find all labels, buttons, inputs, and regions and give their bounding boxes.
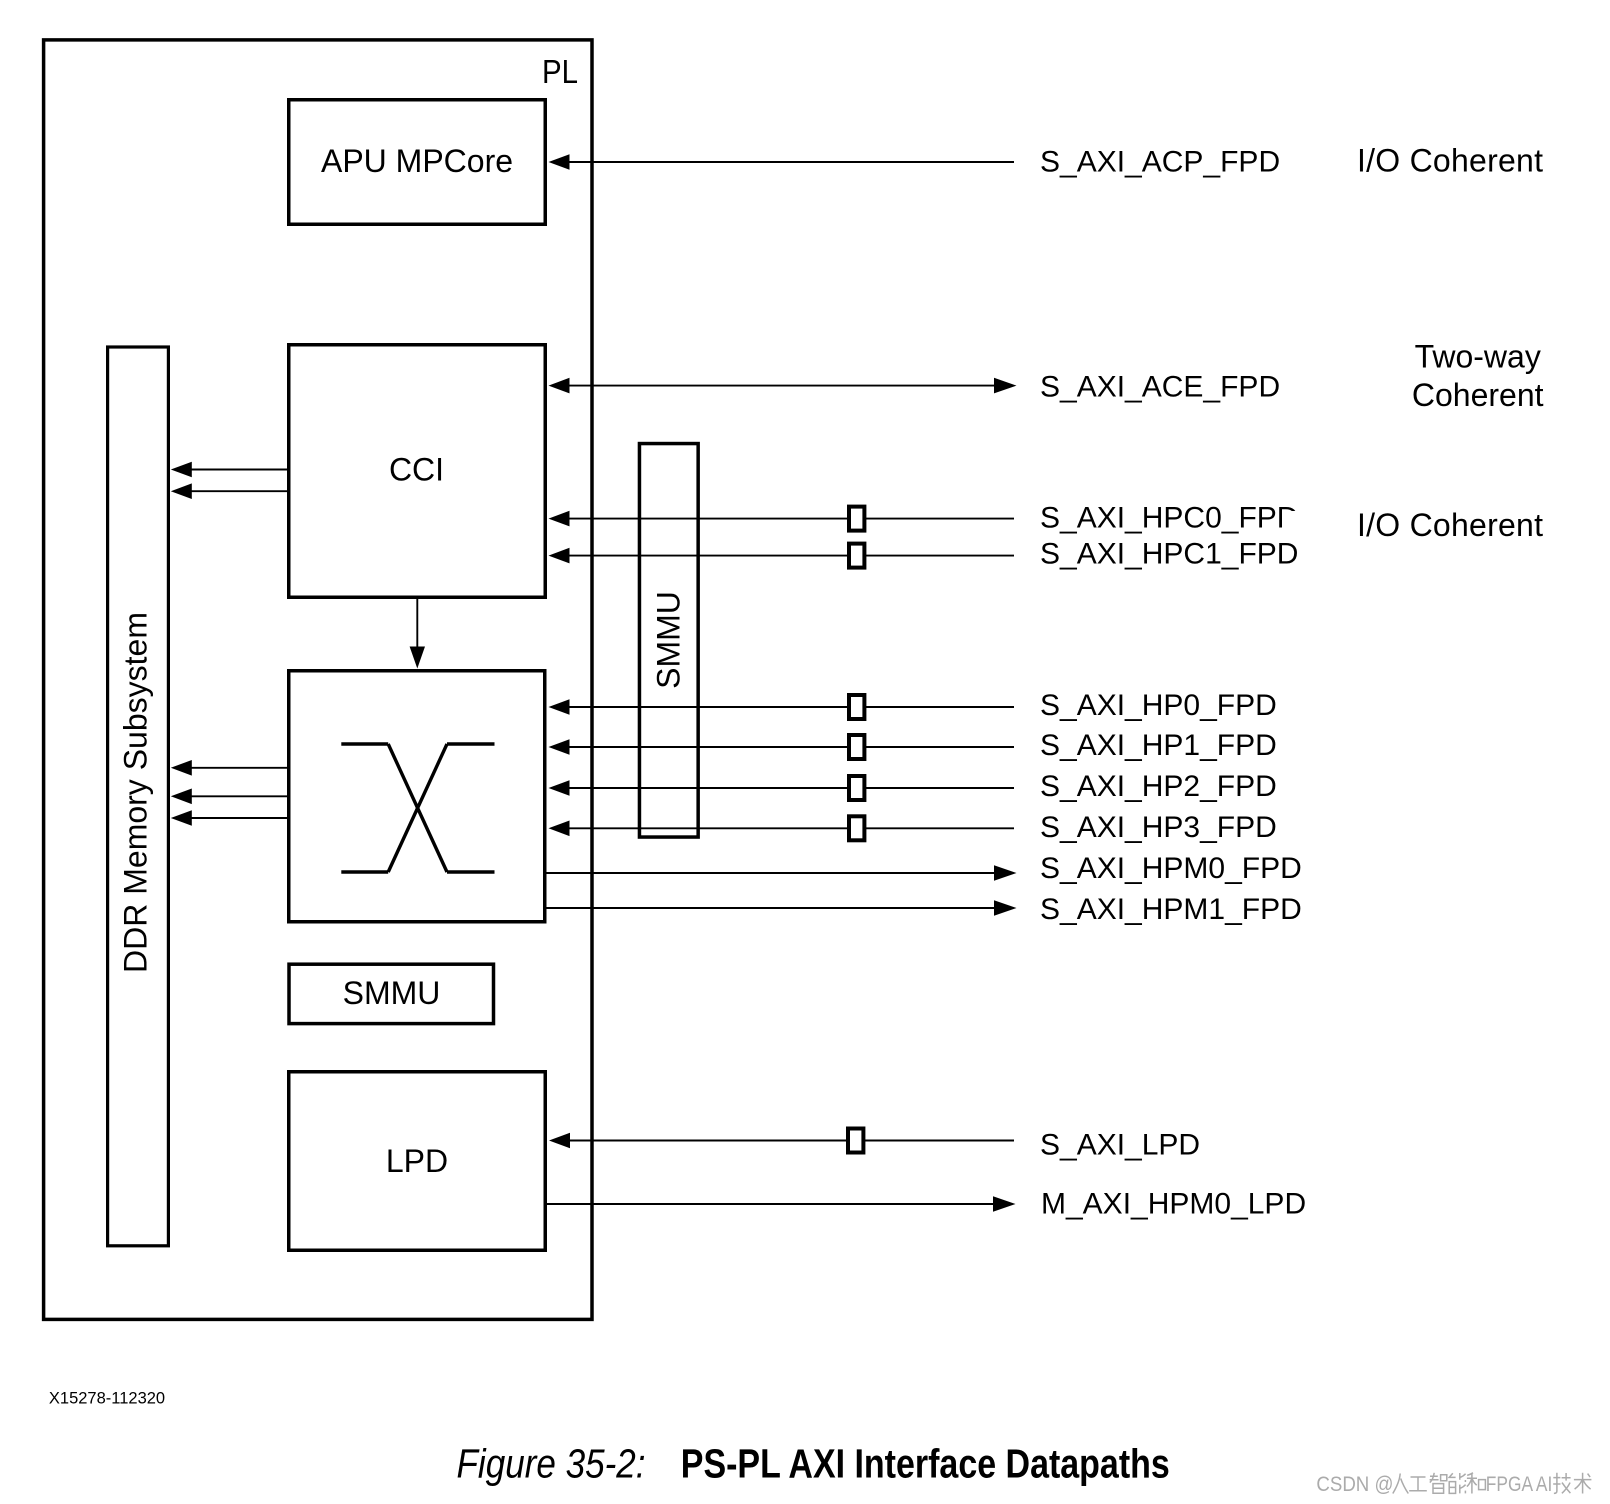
svg-text:I/O Coherent: I/O Coherent (1357, 142, 1543, 178)
wire S_AXI_LPD (568, 1140, 1014, 1142)
wire S_AXI_HPM1_FPD (545, 907, 996, 909)
wire S_AXI_HP2_FPD (568, 787, 1014, 789)
wire crossbar to DDR 2 (191, 795, 288, 797)
gate rect HPC1 (849, 544, 864, 568)
gate rect LPD (848, 1129, 863, 1153)
wire M_AXI_HPM0_LPD (545, 1203, 994, 1205)
crossbar X symbol (341, 744, 494, 872)
wire CCI to DDR (upper) (191, 469, 288, 471)
gate rect HPC0 (849, 507, 864, 531)
svg-text:S_AXI_HP2_FPD: S_AXI_HP2_FPD (1040, 770, 1277, 803)
arrowhead into LPD (549, 1133, 570, 1149)
wire CCI to DDR (lower) (191, 490, 288, 492)
arrowhead xbar-DDR 2 (171, 789, 192, 805)
gate rect HP0 (849, 695, 864, 719)
arrowhead ACE right (994, 378, 1017, 394)
arrowhead HP3 into crossbar (549, 821, 570, 837)
wire S_AXI_HP0_FPD (568, 706, 1014, 708)
wire S_AXI_ACE_FPD (two-way) (568, 385, 995, 387)
watermark CJK zhi (1430, 1473, 1447, 1493)
svg-text:S_AXI_HP0_FPD: S_AXI_HP0_FPD (1040, 689, 1277, 722)
wire crossbar to DDR 1 (191, 767, 288, 769)
svg-text:S_AXI_HPC0_FPD: S_AXI_HPC0_FPD (1040, 501, 1298, 534)
arrowhead HPC0 into CCI (549, 511, 570, 527)
svg-text:S_AXI_HP1_FPD: S_AXI_HP1_FPD (1040, 729, 1277, 762)
svg-text:S_AXI_HPM0_FPD: S_AXI_HPM0_FPD (1040, 852, 1302, 885)
svg-text:S_AXI_HPM1_FPD: S_AXI_HPM1_FPD (1040, 893, 1302, 926)
svg-text:LPD: LPD (386, 1143, 448, 1179)
block DDR Memory Subsystem (108, 347, 169, 1246)
svg-text:M_AXI_HPM0_LPD: M_AXI_HPM0_LPD (1041, 1188, 1306, 1221)
block APU MPCore (289, 100, 546, 225)
wire S_AXI_HP3_FPD (568, 827, 1014, 829)
wire S_AXI_HP1_FPD (568, 746, 1014, 748)
wire S_AXI_HPC1_FPD (568, 555, 1014, 557)
arrowhead HPM1 right (994, 900, 1017, 916)
svg-text:Coherent: Coherent (1412, 377, 1544, 413)
svg-text:DDR Memory Subsystem: DDR Memory Subsystem (118, 612, 154, 973)
watermark CJK neng (1449, 1473, 1465, 1493)
svg-text:PS-PL AXI Interface Datapaths: PS-PL AXI Interface Datapaths (681, 1441, 1170, 1487)
block SMMU (tall, TBU) (639, 444, 698, 838)
gate rect HP2 (849, 776, 864, 800)
svg-text:Two-way: Two-way (1415, 338, 1541, 374)
arrowhead down into crossbar (410, 647, 425, 669)
svg-text:S_AXI_ACE_FPD: S_AXI_ACE_FPD (1040, 371, 1280, 404)
svg-text:S_AXI_HP3_FPD: S_AXI_HP3_FPD (1040, 811, 1277, 844)
wire S_AXI_ACP_FPD (568, 161, 1014, 163)
svg-text:Figure 35-2:: Figure 35-2: (457, 1441, 646, 1487)
PL boundary box (44, 40, 592, 1320)
arrowhead HP2 into crossbar (549, 780, 570, 796)
arrowhead CCI-DDR upper (171, 462, 192, 478)
arrowhead into CCI (549, 378, 570, 394)
arrowhead M_AXI right (993, 1196, 1016, 1212)
svg-text:SMMU: SMMU (651, 591, 687, 689)
arrowhead HPC1 into CCI (549, 548, 570, 564)
watermark CJK ren (1393, 1474, 1409, 1494)
svg-text:S_AXI_LPD: S_AXI_LPD (1040, 1129, 1200, 1162)
block LPD (289, 1072, 546, 1251)
block SMMU (FPD) (289, 964, 494, 1023)
wire S_AXI_HPM0_FPD (545, 872, 996, 874)
arrowhead HP0 into crossbar (549, 699, 570, 715)
watermark CJK gong (1409, 1477, 1427, 1491)
svg-text:SMMU: SMMU (343, 975, 441, 1011)
svg-text:PL: PL (542, 53, 578, 90)
block CCI (289, 345, 546, 598)
svg-text:CCI: CCI (389, 451, 444, 487)
arrowhead xbar-DDR 3 (171, 810, 192, 826)
svg-text:X15278-112320: X15278-112320 (49, 1390, 165, 1408)
svg-text:CSDN @: CSDN @ (1316, 1473, 1393, 1496)
arrowhead xbar-DDR 1 (171, 760, 192, 776)
wire S_AXI_HPC0_FPD (568, 518, 1014, 520)
arrowhead into APU (549, 154, 570, 170)
svg-text:I/O Coherent: I/O Coherent (1357, 507, 1543, 543)
wire crossbar to DDR 3 (191, 817, 288, 819)
svg-text:APU MPCore: APU MPCore (321, 143, 513, 179)
svg-text:S_AXI_ACP_FPD: S_AXI_ACP_FPD (1040, 145, 1280, 178)
gate rect HP1 (849, 735, 864, 759)
arrowhead HP1 into crossbar (549, 739, 570, 755)
arrowhead CCI-DDR lower (171, 483, 192, 499)
svg-text:FPGA AI: FPGA AI (1486, 1473, 1553, 1496)
watermark CJK he (1467, 1473, 1486, 1494)
wire CCI to crossbar (vertical) (416, 598, 418, 648)
block crossbar switch (289, 671, 545, 922)
watermark CJK shu (1574, 1473, 1592, 1494)
watermark CJK ji (1553, 1473, 1570, 1494)
arrowhead HPM0 right (994, 865, 1017, 881)
gate rect HP3 (849, 816, 864, 840)
svg-text:S_AXI_HPC1_FPD: S_AXI_HPC1_FPD (1040, 538, 1298, 571)
glitch whiteout on final D of HPC0 (1282, 511, 1300, 530)
